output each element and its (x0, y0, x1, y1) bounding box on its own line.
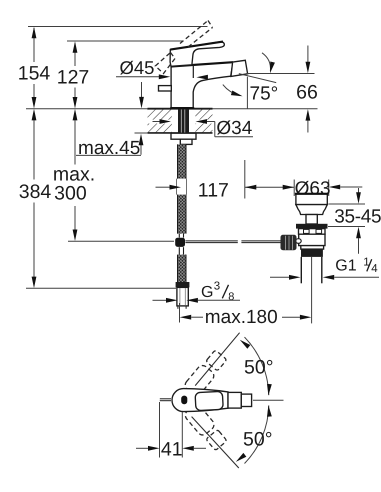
extension line 127 (67, 40, 183, 42)
50deg lower boundary line (192, 417, 239, 468)
drain bottom band (301, 249, 323, 257)
drain clamp (306, 215, 317, 225)
svg-text:G1: G1 (335, 258, 356, 275)
drain taper (296, 205, 327, 215)
svg-text:154: 154 (18, 63, 51, 85)
lower 50 arc (234, 405, 271, 464)
drain lower collar (301, 246, 324, 250)
svg-text:50°: 50° (243, 429, 273, 451)
centerline right (253, 399, 284, 401)
lever handle (170, 42, 224, 67)
dimension 41 (136, 402, 206, 460)
hose end fitting (176, 282, 190, 287)
dimension max.180 (180, 303, 312, 328)
drain tailpipe (301, 257, 322, 324)
label G1 1/4 (270, 257, 379, 280)
svg-text:300: 300 (54, 183, 87, 205)
knurled rod knob (281, 235, 297, 250)
dimension 384 (19, 109, 52, 288)
faucet body and spout outline (171, 62, 233, 108)
dashed lowered lever position (155, 53, 175, 74)
svg-text:117: 117 (198, 179, 229, 201)
top view rod (160, 398, 171, 400)
svg-text:Ø34: Ø34 (216, 118, 252, 139)
dimension 66 (247, 46, 318, 133)
label max.45 (76, 82, 144, 159)
aerator (231, 60, 248, 76)
braided hose lower (177, 255, 186, 282)
dimension Ø34 (153, 118, 254, 139)
top view body capsule (172, 389, 228, 412)
ceramic bottom extension line (135, 132, 149, 134)
svg-text:8: 8 (228, 291, 234, 303)
dimension Ø63 (294, 178, 362, 199)
connector pipes (177, 306, 179, 309)
svg-text:Ø45: Ø45 (120, 57, 155, 78)
svg-text:127: 127 (57, 66, 90, 88)
svg-text:75°: 75° (250, 83, 279, 104)
drain flange dark ring (296, 224, 328, 229)
hose-end extension line (26, 287, 176, 289)
rod extension line (68, 240, 174, 242)
label Ø45 (116, 57, 208, 80)
svg-text:384: 384 (19, 181, 52, 203)
svg-text:4: 4 (371, 263, 378, 275)
dimension max.300 (53, 109, 95, 241)
top view dot (181, 396, 187, 405)
dimension 127 (57, 41, 90, 108)
svg-text:50°: 50° (244, 356, 274, 378)
top view lever (195, 391, 223, 410)
small nut (180, 139, 192, 144)
75 degree annotation (223, 53, 278, 109)
top extension line (154) (28, 26, 208, 28)
label G3/8 (153, 280, 241, 302)
spout root edge (192, 65, 194, 79)
body top / spout top bold edge (171, 62, 233, 66)
upper 50 arc (238, 337, 271, 396)
top view spout neck (228, 392, 241, 408)
dashed spout rotated up 50 (183, 349, 228, 398)
svg-text:G: G (201, 284, 213, 301)
dimension 117 (156, 160, 295, 201)
svg-text:3: 3 (214, 280, 220, 292)
svg-text:41: 41 (161, 438, 183, 460)
50deg upper boundary line (195, 333, 239, 386)
braided hose middle (177, 195, 186, 234)
G3/8 connector body (177, 287, 188, 306)
pop-up horizontal rod (185, 240, 237, 242)
deck top line (26, 108, 318, 110)
dashed spout rotated down 50 (183, 403, 228, 452)
drain body (296, 234, 325, 245)
hose gap outline (176, 179, 178, 195)
faucet base bold line (170, 107, 194, 109)
pop-up rod ball joint (178, 234, 180, 238)
threaded shank (178, 109, 189, 133)
svg-text:max.180: max.180 (205, 307, 278, 328)
svg-text:66: 66 (296, 81, 318, 103)
dimension 35-45 (328, 188, 381, 254)
locknut (171, 133, 196, 139)
dimension 154 (18, 27, 51, 109)
drain flange lower (299, 229, 326, 235)
dashed raised lever position (180, 21, 213, 48)
top view spout tip (241, 394, 251, 406)
drain top cylinder (295, 194, 328, 205)
pop-up rod knob on body (159, 86, 172, 91)
ceramic hatched section (148, 109, 213, 133)
rod stem below joint (178, 247, 180, 254)
braided hose upper (177, 144, 186, 178)
svg-text:35-45: 35-45 (334, 207, 381, 228)
